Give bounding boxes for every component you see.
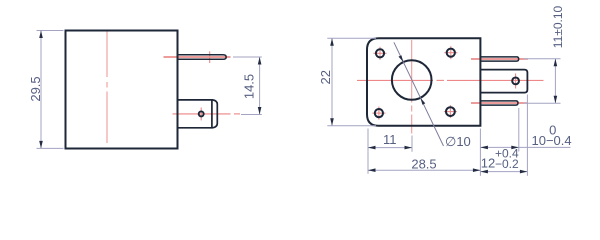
dim 28.5 arrows xyxy=(368,168,480,172)
dim 14.5 arrows xyxy=(258,57,262,115)
dim 12 arrows xyxy=(480,170,527,174)
dim 11pm extension lines xyxy=(524,59,561,103)
top pin centerline (front view) xyxy=(471,58,528,60)
dim 11 arrows xyxy=(368,146,412,150)
corner hole bottom-right xyxy=(446,107,455,116)
svg-text:29.5: 29.5 xyxy=(28,76,43,101)
bottom pin (front view) xyxy=(480,101,518,105)
corner hole top-right cross xyxy=(444,46,457,59)
coil body outline xyxy=(66,31,178,149)
svg-text:0: 0 xyxy=(549,123,556,138)
middle tab hole (front view) xyxy=(512,78,519,85)
corner hole top-left cross xyxy=(374,47,387,60)
tab centerline (side view) xyxy=(173,113,241,115)
svg-text:22: 22 xyxy=(318,70,333,84)
corner hole bottom-right cross xyxy=(444,105,457,118)
dim 10 dimension line xyxy=(480,146,570,148)
middle tab (front view) xyxy=(480,70,527,93)
dim 10 arrows xyxy=(480,146,518,150)
dim 11 dimension line xyxy=(368,147,412,149)
corner hole top-left xyxy=(376,49,384,57)
dim 22 arrows xyxy=(330,38,334,126)
dim 29.5 extension lines xyxy=(37,31,64,149)
corner hole bottom-left cross xyxy=(372,107,385,120)
dim 11pm dimension line xyxy=(554,59,556,103)
corner hole top-right xyxy=(447,49,455,57)
dia10 leader arrows xyxy=(399,55,426,105)
dim 22 extension lines xyxy=(327,38,376,126)
dim 14.5 extension lines xyxy=(233,57,262,115)
dim 12 dimension line xyxy=(480,171,527,173)
svg-text:−0.2: −0.2 xyxy=(495,157,519,171)
corner hole bottom-left xyxy=(375,109,383,117)
top pin (front view) xyxy=(480,57,518,61)
pin centerline tick xyxy=(209,51,211,63)
big center hole xyxy=(392,60,432,100)
svg-text:∅10: ∅10 xyxy=(445,134,471,149)
body vertical centerline xyxy=(106,30,108,144)
svg-text:14.5: 14.5 xyxy=(242,74,257,99)
top pin centerline (side view) xyxy=(164,56,231,58)
dim 12 extension line (tab tip) xyxy=(526,95,528,176)
dim 10 extension line (pin tip) xyxy=(518,108,520,152)
dim 29.5 arrows xyxy=(39,31,43,149)
bottom pin centerline (front view) xyxy=(471,102,528,104)
svg-text:11: 11 xyxy=(383,132,397,147)
tab terminal (side view) xyxy=(178,100,218,128)
svg-text:28.5: 28.5 xyxy=(411,156,436,171)
main vertical centerline xyxy=(411,40,413,134)
main horizontal centerline xyxy=(357,79,544,81)
svg-text:11±0.10: 11±0.10 xyxy=(551,5,565,48)
dim 14.5 dimension line xyxy=(259,57,261,115)
dim 11 extension lines xyxy=(368,129,412,152)
mounting plate outline xyxy=(367,38,480,126)
dim 28.5 extension lines xyxy=(368,129,480,176)
svg-text:12: 12 xyxy=(481,156,495,171)
dim 22 dimension line xyxy=(331,38,333,126)
tab hole (side view) xyxy=(199,111,204,116)
dim 11pm arrows xyxy=(554,59,558,103)
dia10 leader line xyxy=(394,42,444,146)
tab hole vertical tick xyxy=(200,108,202,121)
top pin (side view) xyxy=(178,55,227,60)
middle tab hole tick xyxy=(515,74,517,89)
dim 28.5 dimension line xyxy=(368,169,480,171)
dim 29.5 dimension line xyxy=(40,31,42,149)
